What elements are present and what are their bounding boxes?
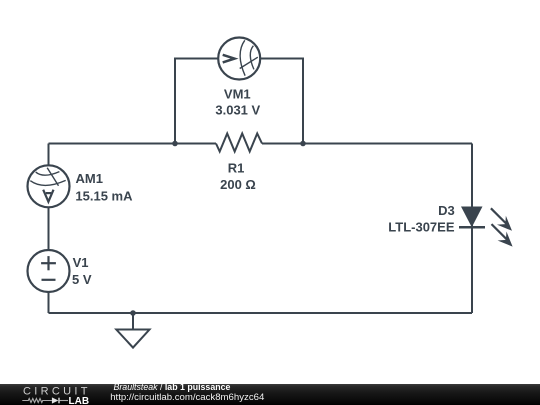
svg-text:V1: V1 <box>73 255 89 270</box>
svg-text:3.031 V: 3.031 V <box>215 103 260 118</box>
svg-text:AM1: AM1 <box>76 171 103 186</box>
svg-text:VM1: VM1 <box>224 86 251 101</box>
svg-text:D3: D3 <box>438 203 455 218</box>
svg-text:http://circuitlab.com/cack8m6h: http://circuitlab.com/cack8m6hyzc64 <box>110 392 265 403</box>
svg-text:15.15 mA: 15.15 mA <box>75 188 133 203</box>
svg-text:5 V: 5 V <box>72 272 92 287</box>
svg-text:Braultsteak / lab 1 puissance: Braultsteak / lab 1 puissance <box>114 382 231 392</box>
svg-text:200 Ω: 200 Ω <box>220 177 256 192</box>
svg-text:LTL-307EE: LTL-307EE <box>388 220 455 235</box>
svg-text:LAB: LAB <box>69 396 90 405</box>
svg-text:R1: R1 <box>228 161 245 176</box>
